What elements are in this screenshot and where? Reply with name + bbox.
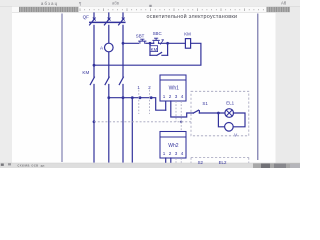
node crossing L3 (122, 96, 125, 99)
breaker QF x-mark pole3 (122, 18, 124, 20)
Wh2 terminal 3 dashed lead (175, 158, 177, 163)
svg-text:абв: абв (112, 1, 120, 6)
breaker QF x-mark pole2 (108, 18, 110, 20)
wire SBT to SBC (146, 42, 154, 44)
meter Wh1 header line (160, 79, 186, 81)
meter Wh1 box (160, 75, 186, 101)
voltmeter V circle (225, 123, 234, 132)
dashed neutral drop to Wh2 (180, 122, 182, 132)
dashed neutral line from L1 (94, 121, 191, 123)
svg-text:эл: эл (41, 164, 45, 168)
svg-text:QF: QF (83, 15, 90, 20)
breaker QF pole 3 blade (119, 19, 124, 25)
lamp EL1 cross spokes (226, 110, 232, 116)
bottom-right taskbar blocks (253, 163, 300, 168)
wire phase bus L1 vertical (93, 13, 95, 162)
svg-text:KM: KM (184, 31, 191, 36)
node SBC right (166, 42, 169, 45)
control wire from L3 to SBT (123, 42, 138, 44)
ruler dark left margin band (19, 7, 79, 12)
meter Wh2 header line (160, 136, 186, 138)
contactor coil KM rectangle (185, 39, 190, 49)
svg-text:1 2 3 4: 1 2 3 4 (163, 94, 184, 99)
KM aux contact branch down legs (150, 43, 168, 55)
wire phase bus L3 vertical (122, 13, 124, 162)
dashed lead under label 2 (149, 90, 151, 114)
group feed drop wire (131, 98, 133, 162)
dashed lead under label 1 (138, 90, 140, 114)
svg-text:KM: KM (151, 47, 158, 52)
ammeter A circle (105, 43, 114, 52)
svg-text:Wh2: Wh2 (168, 143, 179, 149)
pushbutton SBT (NC) (139, 39, 146, 43)
Wh1 terminal 1 lead (165, 101, 167, 110)
contactor KM main contact blade 2 (105, 77, 109, 85)
junction dots (93, 42, 220, 123)
Wh2 terminal 4 dashed lead (180, 158, 182, 163)
breaker QF x-mark pole1 (93, 18, 95, 20)
dashed group box 1 around S1 EL1 V (191, 91, 249, 136)
ruler hatch lines (20, 7, 289, 12)
svg-text:EL2: EL2 (219, 160, 227, 165)
wire coil to right and return to L1 (94, 43, 201, 65)
Wh1 terminal 4 dashed lead (180, 101, 182, 122)
node dashed lead 1 (139, 96, 142, 99)
ruler dark right margin band (267, 7, 291, 12)
voltmeter branch left leg (218, 113, 224, 127)
svg-text:S2: S2 (198, 160, 204, 165)
breaker QF mechanical link bar (90, 21, 125, 23)
dashed elements (94, 90, 249, 163)
switch S1 blade (193, 110, 199, 113)
svg-text:Аб: Аб (281, 1, 287, 6)
node neutral on L1 (93, 120, 96, 123)
breaker QF pole 1 blade (90, 19, 95, 25)
svg-text:S1: S1 (202, 101, 208, 106)
pushbutton SBC (NO) (153, 38, 159, 43)
svg-text:SBC: SBC (153, 31, 162, 36)
svg-text:EL1: EL1 (226, 101, 234, 106)
svg-text:осветительной электроустановки: осветительной электроустановки (147, 13, 238, 20)
svg-text:схема осв: схема осв (18, 164, 39, 168)
node SBC left (149, 42, 152, 45)
ruler small marker glyph (149, 5, 151, 7)
wire SBC to KM coil node (159, 42, 186, 44)
Wh2 terminal leads 1 2 (166, 158, 171, 163)
node control return on L1 (93, 64, 96, 67)
frame border left (61, 14, 63, 163)
wire phase bus L2 vertical (108, 13, 110, 162)
Wh1 terminal 3 dashed lead (175, 101, 177, 122)
frame border right (257, 14, 259, 161)
svg-text:SBT: SBT (136, 33, 145, 38)
bottom light strip (0, 163, 300, 168)
bottom-left small icons (1, 164, 4, 166)
Wh1 terminal 2 lead and wire to S1 (171, 101, 194, 117)
svg-text:1 2 3 4: 1 2 3 4 (163, 151, 184, 156)
wire EL1 to right corner (233, 113, 245, 127)
node distribution on L2 (107, 96, 110, 99)
node neutral at T4 (180, 121, 182, 123)
wire S1 to lamp EL1 (199, 112, 225, 114)
KM aux label box (150, 46, 158, 52)
node control tap on L3 (122, 42, 125, 45)
ruler tick marks (80, 8, 263, 11)
svg-text:Wh1: Wh1 (169, 85, 180, 91)
top toolbar strip (0, 0, 300, 6)
breaker QF pole 2 blade (104, 19, 109, 25)
right gray app margin (276, 0, 301, 168)
contactor KM main contact blade 3 (119, 77, 123, 85)
svg-text:KM: KM (82, 70, 89, 75)
dashed group box 2 top (191, 158, 249, 164)
node drop wire (131, 96, 134, 99)
node voltmeter branch (217, 112, 220, 115)
lamp EL1 circle (225, 109, 234, 118)
SBC linkage mark (160, 40, 163, 44)
meter Wh2 box (160, 132, 186, 159)
ruler white band (12, 7, 290, 13)
node Wh1 tap (150, 96, 153, 99)
page background (0, 0, 300, 168)
svg-text:V: V (234, 133, 237, 138)
distribution wire to Wh1 (109, 97, 151, 99)
wire tap to Wh1 terminal 1 (151, 98, 166, 111)
left gray app margin (0, 0, 12, 168)
contactor KM main contact blade 1 (90, 77, 94, 85)
KM aux contact horizontal with blade (150, 53, 168, 56)
ruler bottom edge (12, 11, 290, 13)
